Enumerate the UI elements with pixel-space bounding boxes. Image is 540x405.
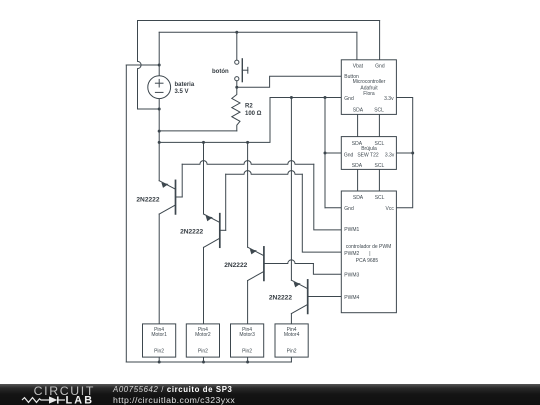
svg-text:Pin2: Pin2 bbox=[154, 349, 164, 355]
svg-text:2N2222: 2N2222 bbox=[224, 262, 247, 269]
svg-text:Flora: Flora bbox=[363, 91, 375, 97]
svg-text:Motor1: Motor1 bbox=[151, 332, 167, 338]
svg-text:SDA: SDA bbox=[353, 195, 364, 201]
svg-text:botón: botón bbox=[212, 69, 229, 75]
svg-text:controlador de PWM: controlador de PWM bbox=[346, 244, 392, 250]
svg-text:SDA: SDA bbox=[352, 163, 363, 169]
svg-text:2N2222: 2N2222 bbox=[136, 196, 159, 203]
svg-text:SDA: SDA bbox=[353, 107, 364, 113]
svg-text:Gnd: Gnd bbox=[344, 206, 354, 212]
svg-text:SCL: SCL bbox=[374, 107, 384, 113]
svg-text:3.3v: 3.3v bbox=[385, 152, 395, 158]
svg-text:PWM2: PWM2 bbox=[344, 251, 359, 257]
svg-text:PWM3: PWM3 bbox=[344, 272, 359, 278]
svg-text:SCL: SCL bbox=[375, 163, 385, 169]
svg-text:LAB: LAB bbox=[66, 395, 95, 405]
svg-text:Microcontroller: Microcontroller bbox=[353, 79, 386, 85]
svg-text:R2: R2 bbox=[245, 103, 253, 109]
svg-text:Gnd: Gnd bbox=[344, 96, 354, 102]
svg-text:100 Ω: 100 Ω bbox=[245, 111, 262, 117]
svg-text:Vcc: Vcc bbox=[386, 206, 395, 212]
svg-text:|: | bbox=[369, 251, 370, 257]
svg-text:PWM1: PWM1 bbox=[344, 227, 359, 233]
svg-text:Gnd: Gnd bbox=[375, 63, 385, 69]
svg-text:Pin2: Pin2 bbox=[287, 349, 297, 355]
svg-text:Brújula: Brújula bbox=[361, 146, 377, 152]
svg-text:SEW T22: SEW T22 bbox=[357, 152, 379, 158]
svg-text:Pin2: Pin2 bbox=[242, 349, 252, 355]
svg-text:Vbat: Vbat bbox=[353, 63, 364, 69]
svg-text:2N2222: 2N2222 bbox=[180, 229, 203, 236]
svg-text:2N2222: 2N2222 bbox=[269, 295, 292, 302]
svg-text:PCA 9685: PCA 9685 bbox=[356, 258, 379, 264]
svg-text:Motor2: Motor2 bbox=[195, 332, 211, 338]
svg-text:Gnd: Gnd bbox=[344, 152, 354, 158]
svg-text:PWM4: PWM4 bbox=[344, 295, 359, 301]
svg-text:3.3v: 3.3v bbox=[384, 96, 394, 102]
svg-text:Motor3: Motor3 bbox=[239, 332, 255, 338]
svg-text:3.5 V: 3.5 V bbox=[175, 89, 189, 95]
svg-text:Pin2: Pin2 bbox=[198, 349, 208, 355]
svg-text:SCL: SCL bbox=[375, 195, 385, 201]
svg-text:bateria: bateria bbox=[175, 82, 195, 88]
svg-text:Motor4: Motor4 bbox=[284, 332, 300, 338]
